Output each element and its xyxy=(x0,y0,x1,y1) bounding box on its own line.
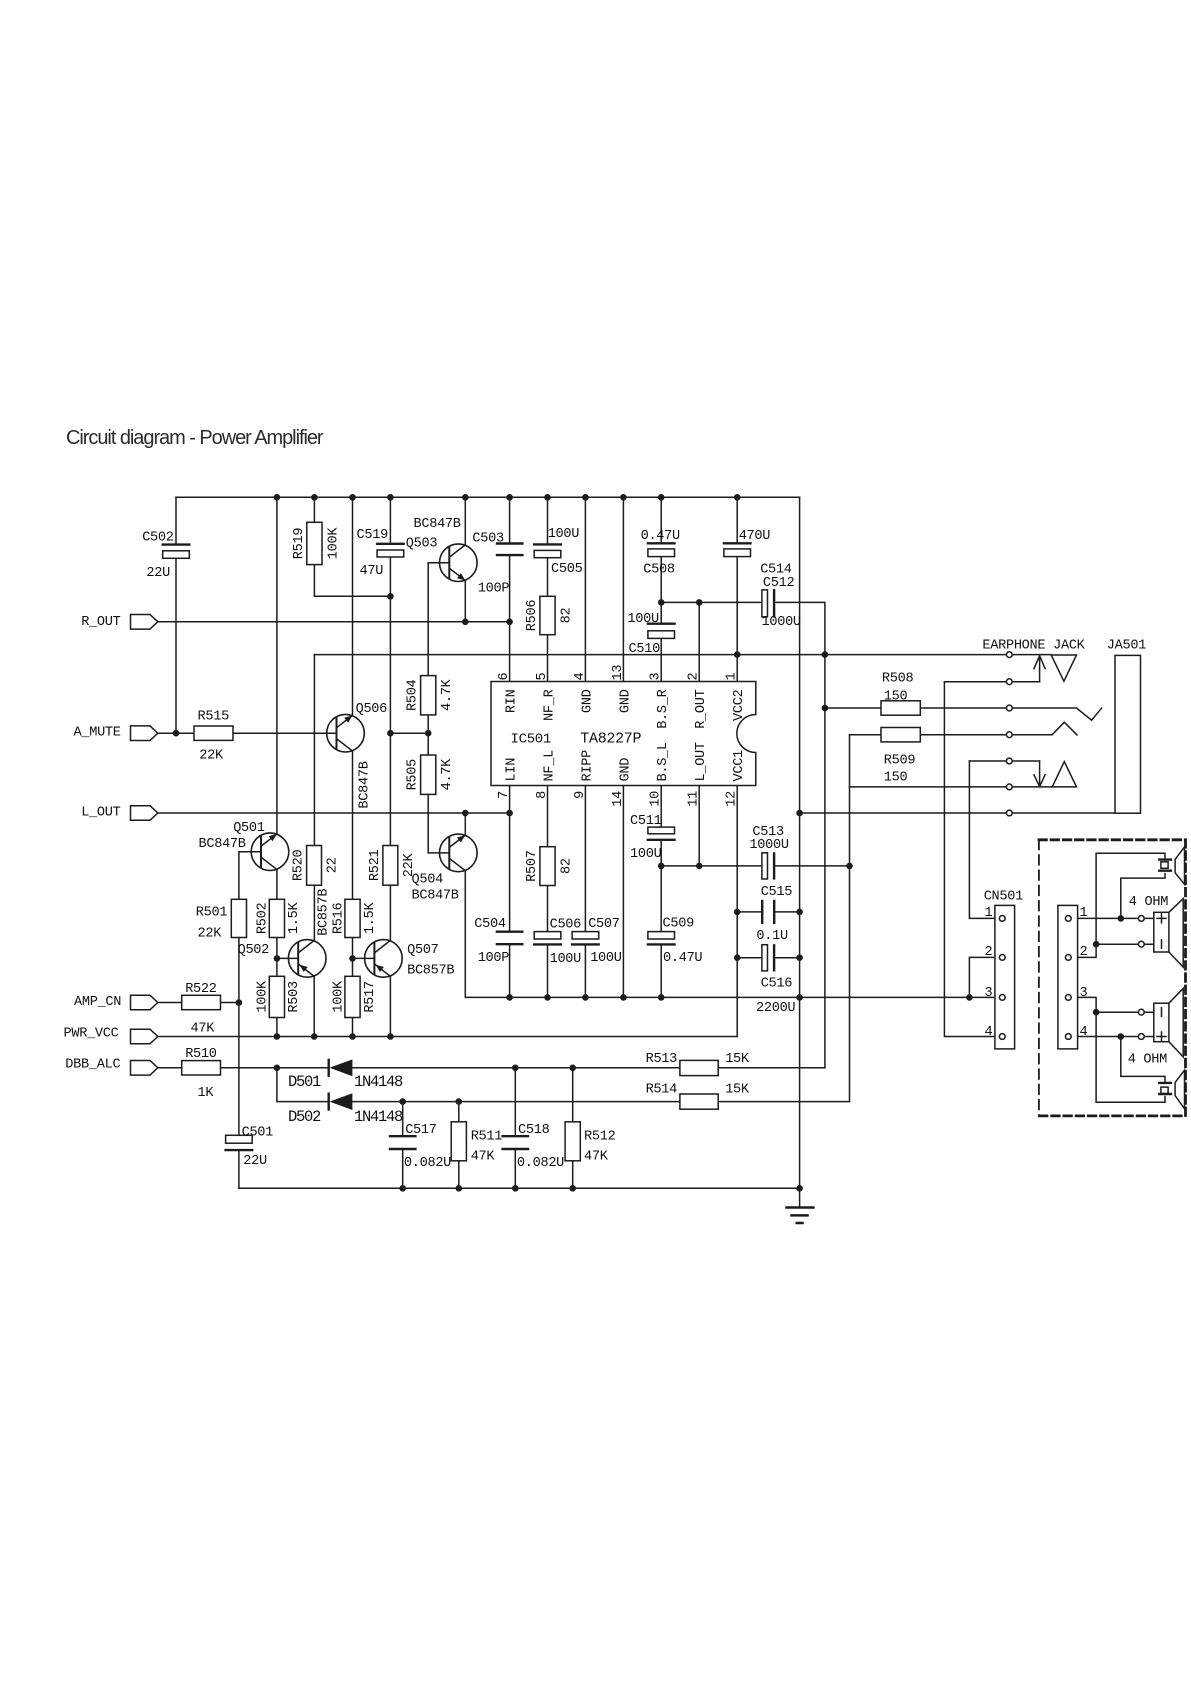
junctions on B.S_L node xyxy=(658,863,853,870)
svg-text:LIN: LIN xyxy=(505,758,520,782)
junction dots on top rail xyxy=(274,494,741,501)
connector A_MUTE xyxy=(131,726,158,741)
junctions on bottom ground bus xyxy=(399,1185,802,1192)
svg-text:150: 150 xyxy=(884,771,908,786)
connector CN501 pins xyxy=(999,916,1005,1040)
junctions on PWR_VCC line xyxy=(274,1033,394,1040)
wire Q503 collector lead xyxy=(464,497,466,545)
svg-text:C501: C501 xyxy=(242,1126,274,1141)
svg-text:D501: D501 xyxy=(288,1073,321,1091)
junctions on B.S_R node xyxy=(658,599,703,606)
junctions on VCC2 node xyxy=(734,651,828,658)
svg-text:D502: D502 xyxy=(288,1108,321,1126)
capacitor C519 xyxy=(377,543,404,545)
transistor Q501 xyxy=(251,833,289,871)
wire jack row6 line xyxy=(850,786,1053,788)
diode D501 xyxy=(329,1059,353,1076)
svg-text:C518: C518 xyxy=(518,1123,550,1138)
svg-text:C506: C506 xyxy=(550,918,582,933)
wire PWR_VCC line to pin12 xyxy=(158,786,738,1037)
svg-text:R522: R522 xyxy=(185,982,217,997)
wire Q501 base R501 C501 column xyxy=(239,852,261,1189)
transistor Q506 xyxy=(327,714,365,752)
wire DBB_ALC drop to D502 xyxy=(277,1068,328,1102)
resistor R516 xyxy=(345,899,360,937)
svg-text:B.S_L: B.S_L xyxy=(656,742,671,781)
svg-text:C509: C509 xyxy=(663,917,695,932)
svg-text:A_MUTE: A_MUTE xyxy=(74,726,121,741)
svg-text:12: 12 xyxy=(725,791,740,807)
svg-text:100U: 100U xyxy=(550,952,582,967)
svg-text:C512: C512 xyxy=(763,576,795,591)
capacitor C515 xyxy=(762,901,774,923)
wire node R520 top rail to VCC2 xyxy=(314,654,1051,656)
resistor R503 xyxy=(269,976,284,1017)
capacitor C516 xyxy=(762,945,768,971)
svg-text:C516: C516 xyxy=(761,977,793,992)
wire pin3 C508 C510 column xyxy=(660,497,662,681)
speaker SP2 xyxy=(1154,989,1183,1057)
speaker connector pin numbers xyxy=(1080,906,1088,1040)
svg-text:82: 82 xyxy=(559,608,574,624)
svg-text:R503: R503 xyxy=(287,981,302,1013)
svg-text:RIPP: RIPP xyxy=(580,750,595,782)
svg-text:4 OHM: 4 OHM xyxy=(1128,1053,1167,1068)
wire jack row5 line xyxy=(969,760,1039,762)
svg-text:0.082U: 0.082U xyxy=(517,1156,564,1171)
svg-text:C511: C511 xyxy=(630,814,662,829)
svg-text:BC847B: BC847B xyxy=(358,761,373,808)
svg-text:BC847B: BC847B xyxy=(199,837,246,852)
svg-text:R511: R511 xyxy=(471,1129,503,1144)
svg-text:Q504: Q504 xyxy=(412,872,444,887)
svg-text:Q506: Q506 xyxy=(356,702,388,717)
svg-text:6: 6 xyxy=(497,673,512,681)
junctions speaker wiring xyxy=(1093,915,1124,1040)
svg-text:4: 4 xyxy=(985,1025,993,1040)
svg-text:B.S_R: B.S_R xyxy=(656,689,671,728)
wire CN501 pin2 link xyxy=(969,957,1002,997)
svg-text:GND: GND xyxy=(618,758,633,782)
wire bottom ground bus xyxy=(239,1187,800,1189)
svg-text:R508: R508 xyxy=(882,672,914,687)
wire R520 / Q502 column xyxy=(313,655,315,941)
junctions on ground bus xyxy=(506,994,972,1001)
wire Q501 collector to rail xyxy=(276,497,278,834)
svg-text:0.47U: 0.47U xyxy=(641,529,680,544)
svg-text:BC847B: BC847B xyxy=(414,517,461,532)
svg-text:BC857B: BC857B xyxy=(407,963,454,978)
ground xyxy=(787,1208,814,1224)
svg-text:13: 13 xyxy=(611,665,626,681)
wire pin2 R_OUT lead xyxy=(698,602,700,681)
svg-text:Circuit diagram - Power Amplif: Circuit diagram - Power Amplifier xyxy=(66,427,324,449)
svg-text:Q503: Q503 xyxy=(406,536,438,551)
resistor R502 xyxy=(269,899,284,937)
svg-text:R506: R506 xyxy=(525,600,540,632)
resistor R512 xyxy=(565,1122,580,1161)
svg-text:R510: R510 xyxy=(185,1047,217,1062)
svg-text:R505: R505 xyxy=(406,759,421,791)
wire R511 column xyxy=(458,1102,460,1189)
capacitor C509 xyxy=(648,932,675,939)
junction R508 node xyxy=(822,705,829,712)
connector R_OUT xyxy=(131,615,158,630)
svg-text:R517: R517 xyxy=(363,981,378,1013)
svg-text:22U: 22U xyxy=(146,566,170,581)
wire R519 column and link to C519 xyxy=(314,497,390,596)
svg-text:5: 5 xyxy=(535,673,550,681)
wire tweeter1 loop xyxy=(1078,853,1166,957)
svg-text:2: 2 xyxy=(687,673,702,681)
svg-text:R514: R514 xyxy=(646,1083,678,1098)
resistor R505 xyxy=(421,755,436,794)
wire top supply rail xyxy=(176,496,800,498)
svg-text:CN501: CN501 xyxy=(984,889,1023,904)
node A_MUTE bias segment xyxy=(390,732,428,734)
wire D501 cathode to R513 xyxy=(352,1067,680,1069)
svg-text:Q507: Q507 xyxy=(407,943,439,958)
wire pin4 and pin9 C507 column xyxy=(584,497,586,997)
svg-text:0.47U: 0.47U xyxy=(663,951,702,966)
capacitor C514 xyxy=(724,542,751,544)
svg-text:C519: C519 xyxy=(357,528,389,543)
junctions C516 node xyxy=(734,954,803,961)
svg-text:100U: 100U xyxy=(630,847,662,862)
svg-text:BC857B: BC857B xyxy=(317,889,332,936)
svg-text:R507: R507 xyxy=(525,850,540,882)
capacitor C503 xyxy=(497,544,522,556)
junctions on L_OUT line xyxy=(462,810,803,817)
wire Q503 emitter lead xyxy=(464,581,466,622)
svg-text:EARPHONE JACK: EARPHONE JACK xyxy=(982,638,1085,653)
svg-text:22: 22 xyxy=(326,857,341,873)
svg-text:9: 9 xyxy=(573,791,588,799)
dashed speaker enclosure box xyxy=(1038,840,1040,1116)
svg-text:GND: GND xyxy=(618,689,633,713)
svg-text:2200U: 2200U xyxy=(756,1001,795,1016)
wire R512 column xyxy=(572,1068,574,1189)
resistor R511 xyxy=(451,1122,466,1161)
svg-text:100K: 100K xyxy=(332,980,347,1013)
junctions on DBB_ALC D501 line xyxy=(274,1065,576,1072)
junction Q507 base xyxy=(349,955,356,962)
svg-text:8: 8 xyxy=(535,791,550,799)
connector CN501 body xyxy=(995,905,1015,1049)
svg-text:JA501: JA501 xyxy=(1107,638,1146,653)
svg-text:1.5K: 1.5K xyxy=(287,902,302,935)
svg-text:100P: 100P xyxy=(478,582,510,597)
wire C502 column xyxy=(175,497,177,733)
svg-text:3: 3 xyxy=(649,673,664,681)
capacitor C507 xyxy=(572,932,599,939)
jack switch arrow up xyxy=(1034,656,1045,682)
wire C519 / R521 column xyxy=(389,497,391,940)
wire B.S_L node to C513 xyxy=(661,865,849,867)
capacitor C505 xyxy=(534,543,561,545)
wire pin13 and pin14 column xyxy=(622,497,624,997)
capacitor C506 xyxy=(534,932,561,939)
wire jack row3 R508 line xyxy=(825,708,1102,720)
resistor R508 xyxy=(881,701,920,715)
resistor R510 xyxy=(182,1061,221,1075)
svg-text:NF_L: NF_L xyxy=(543,750,558,782)
jack ring contact triangle xyxy=(1052,762,1076,787)
wire jack row2 to CN501 pin4 xyxy=(944,682,1002,1037)
wire D502 cathode to R514 xyxy=(352,1101,680,1103)
svg-text:C517: C517 xyxy=(405,1123,437,1138)
capacitor C508 xyxy=(648,542,675,544)
wire jack row4 R509 line xyxy=(850,722,1078,735)
svg-text:R501: R501 xyxy=(196,905,228,920)
wire speaker1 minus row xyxy=(1096,943,1154,945)
junction Q502 base xyxy=(274,955,281,962)
svg-text:100K: 100K xyxy=(326,527,341,560)
wire pin4 to tweeter2 top xyxy=(1121,1037,1165,1083)
jack contact pins xyxy=(1006,652,1012,816)
svg-text:R509: R509 xyxy=(884,753,916,768)
svg-text:1.5K: 1.5K xyxy=(363,902,378,935)
wire speaker conn pin1 xyxy=(1078,917,1154,919)
wire Q504 emitter to ground bus xyxy=(465,871,509,998)
wire speaker2 minus row xyxy=(1096,1011,1154,1013)
svg-text:R515: R515 xyxy=(198,710,230,725)
jack switch arrow down xyxy=(1034,761,1045,787)
jack tip contact triangle xyxy=(1051,655,1076,681)
svg-text:100U: 100U xyxy=(590,951,622,966)
svg-text:R_OUT: R_OUT xyxy=(694,689,709,728)
wire Q501 emitter / R502 / R503 column xyxy=(276,870,278,1037)
svg-text:C510: C510 xyxy=(629,642,661,657)
svg-text:C507: C507 xyxy=(588,917,620,932)
svg-text:100U: 100U xyxy=(627,612,659,627)
svg-text:C515: C515 xyxy=(761,885,793,900)
resistor R515 xyxy=(194,726,233,740)
svg-text:C504: C504 xyxy=(474,917,506,932)
svg-text:3: 3 xyxy=(1080,986,1088,1001)
svg-text:470U: 470U xyxy=(739,529,771,544)
capacitor C502 xyxy=(163,543,190,545)
wire C516 leads xyxy=(737,957,799,959)
CN501 pin numbers xyxy=(985,906,993,1040)
svg-text:4.7K: 4.7K xyxy=(440,678,455,711)
svg-text:1K: 1K xyxy=(198,1086,215,1101)
svg-text:150: 150 xyxy=(884,690,908,705)
tweeter TW2 xyxy=(1159,1070,1184,1109)
svg-text:100K: 100K xyxy=(256,980,271,1013)
wire speaker conn pin3 to tweeter2 xyxy=(1078,997,1166,1102)
wire pin1 C514 column xyxy=(736,497,738,681)
svg-text:1: 1 xyxy=(985,906,993,921)
wire L_OUT line xyxy=(158,812,510,814)
connector DBB_ALC xyxy=(131,1061,158,1076)
speaker terminal pins xyxy=(1138,916,1144,1040)
resistor R521 xyxy=(383,846,398,886)
svg-text:R521: R521 xyxy=(368,850,383,882)
junction AMP_CN R501 xyxy=(236,999,243,1006)
diode D502 xyxy=(329,1093,353,1110)
svg-text:R520: R520 xyxy=(292,850,307,882)
connector L_OUT xyxy=(131,806,158,821)
resistor R509 xyxy=(881,728,920,742)
earphone jack JA501 body xyxy=(1115,655,1141,813)
svg-text:10: 10 xyxy=(649,791,664,807)
svg-text:R502: R502 xyxy=(256,903,271,935)
junctions on A_MUTE line xyxy=(173,730,432,737)
speaker side connector pins xyxy=(1065,916,1071,1040)
capacitor C504 xyxy=(497,932,522,945)
svg-text:C502: C502 xyxy=(142,531,174,546)
svg-text:BC847B: BC847B xyxy=(412,889,459,904)
resistor R514 xyxy=(680,1094,718,1109)
junctions on R_OUT line xyxy=(462,619,513,626)
resistor R513 xyxy=(680,1060,718,1075)
svg-text:VCC1: VCC1 xyxy=(732,750,747,782)
resistor R520 xyxy=(307,846,322,886)
junctions on D502 line xyxy=(399,1098,462,1105)
wire B.S_R node to C512 xyxy=(661,601,762,603)
capacitor C512 xyxy=(762,590,768,617)
svg-text:1N4148: 1N4148 xyxy=(354,1108,403,1126)
resistor R506 xyxy=(540,596,555,634)
capacitor C517 xyxy=(390,1136,415,1149)
svg-text:22K: 22K xyxy=(198,926,223,941)
wire R504 / R505 column with Q503 and Q504 base links xyxy=(428,563,449,853)
wire jack row7 sleeve line xyxy=(800,812,1115,814)
svg-text:4: 4 xyxy=(1080,1025,1088,1040)
capacitor C501 xyxy=(226,1135,253,1143)
wire speaker conn pin4 xyxy=(1078,1036,1154,1038)
wire pin5 C505 R506 column xyxy=(547,497,549,997)
speaker SP1 xyxy=(1154,899,1183,968)
svg-text:0.082U: 0.082U xyxy=(404,1156,451,1171)
svg-text:R504: R504 xyxy=(406,679,421,711)
transistor Q504 xyxy=(440,834,478,872)
transistor Q502 xyxy=(277,940,326,1037)
op-amp IC501 TA8227P body xyxy=(491,682,756,786)
tweeter TW1 xyxy=(1159,847,1184,884)
wire jack row2 switch line xyxy=(944,681,1039,683)
svg-text:R516: R516 xyxy=(332,903,347,935)
svg-text:GND: GND xyxy=(580,689,595,713)
svg-text:AMP_CN: AMP_CN xyxy=(74,995,121,1010)
svg-text:RIN: RIN xyxy=(505,689,520,713)
speaker side connector body xyxy=(1058,905,1078,1049)
wire AMP_CN line xyxy=(158,1002,239,1004)
resistor R504 xyxy=(421,676,436,715)
svg-text:22K: 22K xyxy=(199,749,224,764)
capacitor C510 xyxy=(648,623,675,625)
svg-text:47K: 47K xyxy=(191,1022,216,1037)
svg-text:Q501: Q501 xyxy=(233,821,265,836)
svg-text:L_OUT: L_OUT xyxy=(81,806,120,821)
wire R514 to C513 node xyxy=(718,1101,849,1103)
svg-text:C508: C508 xyxy=(643,563,675,578)
svg-text:C505: C505 xyxy=(551,562,583,577)
wire R_OUT line xyxy=(158,621,510,623)
capacitor C518 xyxy=(503,1136,528,1149)
capacitor C511 xyxy=(648,827,675,834)
svg-text:0.1U: 0.1U xyxy=(756,929,788,944)
resistor R522 xyxy=(182,995,221,1009)
svg-text:R519: R519 xyxy=(292,528,307,560)
junction R519 C519 xyxy=(387,593,394,600)
junctions C515 node xyxy=(734,909,803,916)
svg-text:14: 14 xyxy=(611,791,626,807)
wire jack row5 to CN501 pin1 xyxy=(969,761,1002,918)
svg-text:Q502: Q502 xyxy=(238,943,270,958)
wire C515 leads xyxy=(737,911,799,913)
wire Q506 collector to rail xyxy=(352,497,354,715)
svg-text:2: 2 xyxy=(1080,945,1088,960)
svg-text:IC501: IC501 xyxy=(511,732,552,748)
transistor Q503 xyxy=(440,544,478,582)
svg-text:3: 3 xyxy=(985,986,993,1001)
svg-text:R512: R512 xyxy=(584,1129,616,1144)
svg-text:1N4148: 1N4148 xyxy=(354,1073,403,1091)
wire Q504 collector lead xyxy=(464,813,466,835)
svg-text:NF_R: NF_R xyxy=(543,689,558,721)
svg-text:15K: 15K xyxy=(725,1052,750,1067)
svg-text:1: 1 xyxy=(1080,906,1088,921)
svg-text:11: 11 xyxy=(687,791,702,807)
svg-text:47K: 47K xyxy=(471,1150,496,1165)
svg-text:1: 1 xyxy=(725,673,740,681)
svg-text:TA8227P: TA8227P xyxy=(580,731,641,748)
wire A_MUTE line xyxy=(158,732,337,734)
svg-text:47K: 47K xyxy=(584,1150,609,1165)
svg-text:1000U: 1000U xyxy=(762,615,801,630)
connector AMP_CN xyxy=(131,995,158,1010)
wire Q506 emitter / R516 / R517 column xyxy=(352,751,354,1037)
svg-text:PWR_VCC: PWR_VCC xyxy=(64,1026,119,1041)
svg-text:82: 82 xyxy=(559,858,574,874)
svg-text:4 OHM: 4 OHM xyxy=(1129,895,1168,910)
resistor R519 xyxy=(307,522,322,564)
wire pin10 C511 C509 column xyxy=(660,786,662,998)
svg-text:100P: 100P xyxy=(478,951,510,966)
wire C517 column xyxy=(402,1102,404,1189)
svg-text:7: 7 xyxy=(497,791,512,799)
svg-text:15K: 15K xyxy=(725,1083,750,1098)
svg-text:1000U: 1000U xyxy=(749,838,788,853)
svg-text:C503: C503 xyxy=(472,531,504,546)
transistor Q507 xyxy=(353,940,403,1037)
svg-text:4: 4 xyxy=(573,673,588,681)
wire pin11 L_OUT lead xyxy=(698,786,700,866)
svg-text:DBB_ALC: DBB_ALC xyxy=(65,1057,120,1072)
resistor R501 xyxy=(231,899,246,937)
wire ground bus to CN501 pin3 xyxy=(510,996,1002,998)
svg-text:R513: R513 xyxy=(646,1052,678,1067)
wire C512 output vertical xyxy=(774,602,825,1067)
svg-text:L_OUT: L_OUT xyxy=(694,742,709,781)
svg-text:22U: 22U xyxy=(243,1154,267,1169)
svg-text:47U: 47U xyxy=(360,564,384,579)
resistor R507 xyxy=(540,847,555,886)
svg-text:R_OUT: R_OUT xyxy=(81,615,120,630)
wire pin6 C503 C504 column xyxy=(509,497,511,997)
capacitor C513 xyxy=(762,853,768,879)
svg-text:2: 2 xyxy=(985,945,993,960)
wire right main vertical to ground xyxy=(799,497,801,1207)
svg-text:4.7K: 4.7K xyxy=(440,758,455,791)
resistor R517 xyxy=(345,976,360,1017)
svg-text:VCC2: VCC2 xyxy=(732,689,747,721)
wire R509 C513 R514 vertical xyxy=(849,735,851,1102)
wire R513 to C512 output node xyxy=(718,1067,825,1069)
wire C518 column xyxy=(514,1068,516,1189)
